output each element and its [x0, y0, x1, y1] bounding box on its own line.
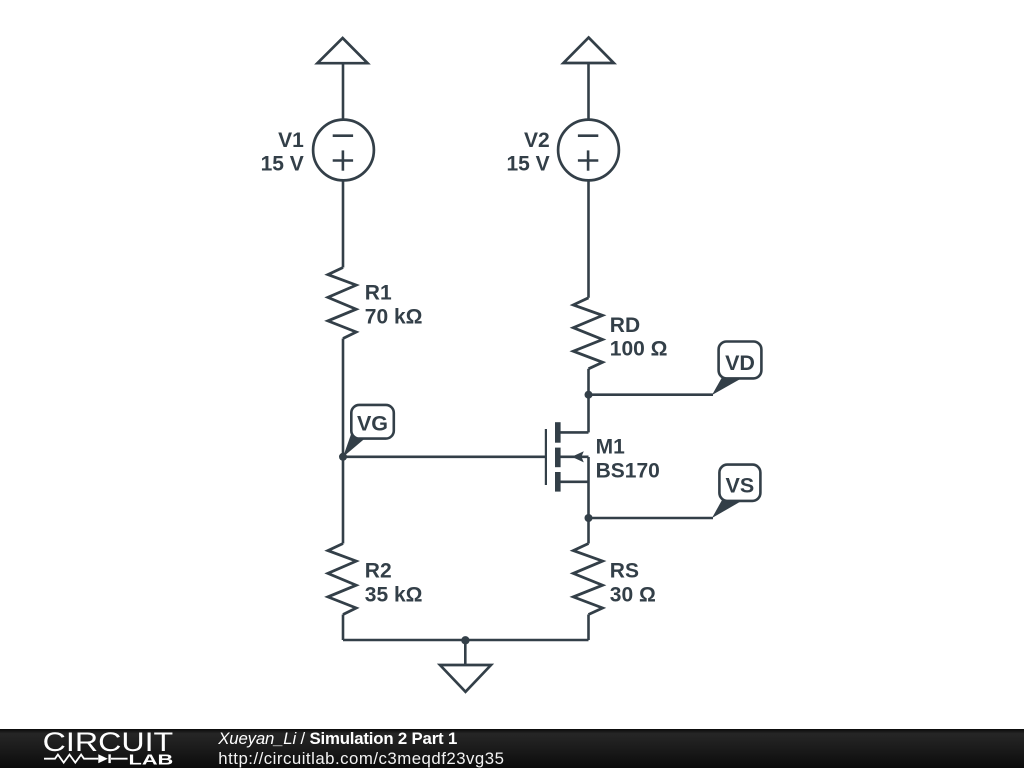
svg-text:V2: V2: [524, 129, 550, 152]
svg-text:R2: R2: [365, 560, 392, 583]
svg-text:BS170: BS170: [596, 460, 660, 483]
svg-text:RD: RD: [610, 314, 640, 337]
svg-text:15 V: 15 V: [506, 152, 549, 175]
svg-text:VG: VG: [357, 412, 388, 436]
svg-text:VS: VS: [726, 473, 755, 497]
svg-text:Xueyan_Li / Simulation 2 Part: Xueyan_Li / Simulation 2 Part 1: [217, 729, 457, 748]
svg-text:VD: VD: [725, 351, 755, 375]
svg-text:http://circuitlab.com/c3meqdf2: http://circuitlab.com/c3meqdf23vg35: [218, 749, 504, 768]
svg-text:V1: V1: [278, 129, 304, 152]
svg-text:100 Ω: 100 Ω: [610, 338, 668, 361]
svg-text:30 Ω: 30 Ω: [610, 583, 656, 606]
svg-text:LAB: LAB: [129, 751, 174, 768]
svg-text:M1: M1: [596, 436, 625, 459]
svg-text:15 V: 15 V: [261, 152, 304, 175]
svg-text:R1: R1: [365, 282, 392, 305]
svg-text:35 kΩ: 35 kΩ: [365, 583, 423, 606]
svg-text:RS: RS: [610, 560, 639, 583]
svg-text:70 kΩ: 70 kΩ: [365, 305, 423, 328]
